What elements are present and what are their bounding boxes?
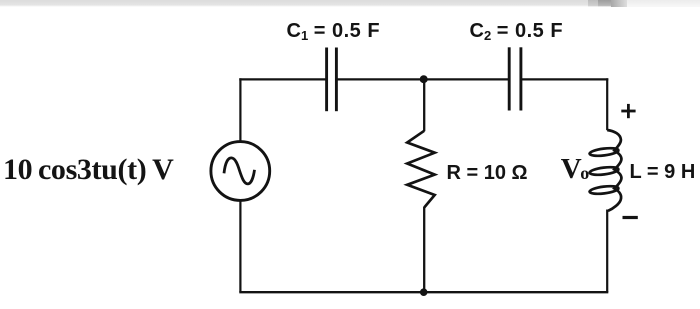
label C1 = 0.5 F [287, 20, 381, 43]
label Vo [561, 153, 589, 186]
wire left vertical lower (source to bottom wire) [239, 200, 241, 292]
wire right vertical lower (inductor to bottom wire) [606, 210, 608, 293]
wire right vertical upper (corner to inductor) [606, 78, 608, 130]
polarity minus sign [623, 216, 638, 219]
voltage source sine symbol [224, 158, 255, 184]
node A dot (top junction) [420, 75, 428, 83]
inductor L coil [589, 130, 621, 211]
node B dot (bottom junction) [420, 288, 428, 296]
resistor R zigzag [407, 131, 435, 208]
wire bottom horizontal [239, 291, 608, 293]
wire middle branch lower (resistor to node B) [423, 207, 425, 292]
capacitor C2 plates [509, 47, 521, 110]
wire left vertical upper (top wire down to source) [239, 78, 241, 141]
top toolbar strip (screenshot chrome) [0, 0, 700, 7]
wire top-left horizontal (source to C1) [239, 78, 326, 80]
voltage source VS circle [211, 142, 270, 201]
label C2 = 0.5 F [470, 20, 564, 43]
label R = 10 ohm [447, 162, 528, 185]
capacitor C1 plates [327, 48, 337, 112]
wire top-right horizontal (C2 to right corner) [521, 78, 608, 80]
label source value 10 cos3tu(t) V [3, 153, 173, 187]
wire top-middle horizontal (C1 to C2) [336, 78, 509, 80]
polarity plus sign [621, 104, 635, 118]
wire middle branch upper (node A to resistor) [423, 79, 425, 131]
label L = 9 H [630, 161, 696, 184]
